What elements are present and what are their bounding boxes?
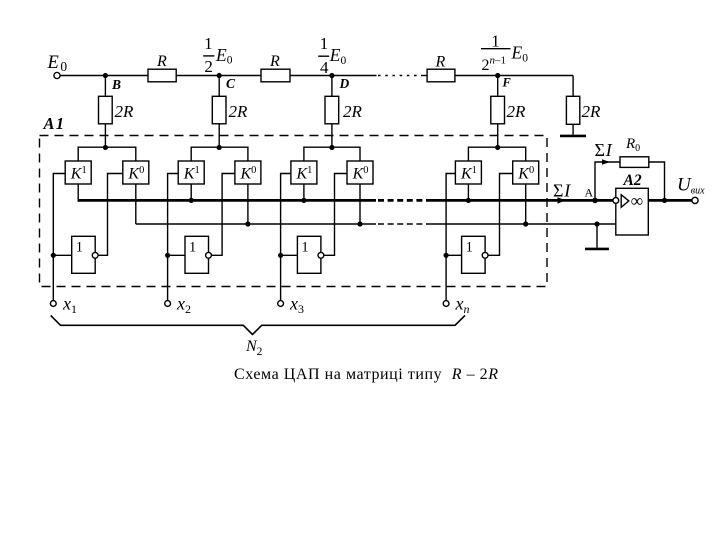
- inverter bit n: [462, 236, 486, 273]
- switch K1 bit 2: [178, 161, 204, 184]
- resistor 2R at node D: [331, 76, 333, 97]
- svg-text:R: R: [156, 53, 167, 70]
- inverter output circle bit n: [482, 252, 488, 258]
- wire inverter to K0 control bit n: [488, 174, 513, 256]
- wire x2 to inverter input: [168, 254, 185, 256]
- lower reference bus: [136, 223, 376, 225]
- ground at op-amp: [596, 224, 598, 248]
- svg-text:A: A: [585, 186, 594, 200]
- node B: [103, 73, 108, 78]
- switch K0 bit 2: [235, 161, 261, 184]
- resistor R0: [620, 157, 649, 168]
- svg-text:2R: 2R: [115, 102, 135, 121]
- svg-text:2R: 2R: [343, 102, 363, 121]
- arrow on feedback wire: [602, 159, 610, 165]
- wire K1 to summing bus bit 1: [77, 184, 79, 202]
- junction on x2 line: [165, 253, 170, 258]
- junction on summing bus bit 2: [189, 198, 194, 203]
- wire K1 to summing bus bit 2: [190, 184, 192, 202]
- svg-text:1: 1: [320, 34, 329, 53]
- label 1/4 E0: [320, 34, 347, 77]
- switch K0 bit 1: [123, 161, 149, 184]
- wire K1 control bit n: [446, 174, 455, 256]
- wire to terminal x3: [280, 255, 282, 300]
- wire K1 control bit 1: [53, 174, 65, 256]
- terminal x3: [278, 301, 284, 307]
- svg-text:1: 1: [204, 34, 213, 53]
- label 1/2^(n-1) E0: [482, 31, 529, 74]
- wire R1 to node C: [176, 75, 219, 77]
- inverter output circle bit 3: [318, 252, 324, 258]
- node C: [217, 73, 222, 78]
- wire x1 to inverter input: [53, 254, 71, 256]
- junction node bit n: [495, 145, 500, 150]
- junction on lower bus bit n: [523, 221, 528, 226]
- svg-text:D: D: [339, 76, 350, 91]
- terminal x2: [165, 301, 171, 307]
- svg-text:ΣI: ΣI: [595, 140, 613, 160]
- svg-text:A1: A1: [43, 114, 66, 133]
- junction on x1 line: [51, 253, 56, 258]
- node A: [592, 198, 598, 204]
- switch K0 bit n: [513, 161, 539, 184]
- svg-text:2: 2: [204, 57, 213, 76]
- svg-text:1: 1: [189, 240, 196, 256]
- wire xn to inverter input: [446, 254, 462, 256]
- switch K1 bit 1: [65, 161, 91, 184]
- node D: [329, 73, 334, 78]
- junction on xn line: [444, 253, 449, 258]
- ground under terminating 2R: [560, 135, 586, 138]
- feedback wire from node A: [595, 162, 620, 200]
- wire to R3: [421, 75, 427, 77]
- svg-text:C: C: [226, 76, 236, 91]
- wire R2 to node D: [290, 75, 332, 77]
- wire arm to switches bit 1: [78, 147, 136, 161]
- junction on summing bus bit n: [466, 198, 471, 203]
- wire R0 to output node: [649, 162, 665, 200]
- wire K0 to lower bus bit 2: [247, 184, 249, 224]
- output wire: [648, 199, 692, 202]
- svg-text:A2: A2: [623, 172, 642, 189]
- junction on x3 line: [278, 253, 283, 258]
- svg-text:B: B: [111, 77, 121, 92]
- wire D rightwards: [332, 75, 377, 77]
- inverter output circle bit 1: [92, 252, 98, 258]
- svg-text:2R: 2R: [229, 102, 249, 121]
- svg-text:1: 1: [76, 240, 83, 256]
- terminal x1: [50, 301, 56, 307]
- wire R3 to node F: [455, 75, 498, 77]
- wire K1 control bit 2: [168, 174, 179, 256]
- switch K1 bit n: [455, 161, 481, 184]
- junction on output: [662, 198, 667, 203]
- dashed block A1: [40, 136, 548, 287]
- op-amp inverting input circle: [613, 198, 619, 204]
- terminal xn: [443, 301, 449, 307]
- junction on lower bus bit 2: [245, 221, 250, 226]
- resistor 2R at node B: [104, 76, 106, 97]
- wire K0 to lower bus bit n: [525, 184, 527, 224]
- switch K0 bit 3: [347, 161, 373, 184]
- wire to terminal xn: [445, 255, 447, 300]
- wire to terminal x2: [167, 255, 169, 300]
- inverter bit 3: [297, 236, 321, 273]
- wire F to right corner: [498, 75, 573, 77]
- svg-text:1: 1: [491, 31, 500, 50]
- op-amp triangle: [621, 195, 629, 208]
- brace N2: [51, 315, 465, 334]
- terminating resistor 2R: [572, 76, 574, 97]
- wire arm to switches bit 2: [191, 147, 248, 161]
- wire C to R2: [219, 75, 261, 77]
- inverter bit 2: [185, 236, 209, 273]
- wire K1 to summing bus bit 3: [303, 184, 305, 202]
- wire arm to switches bit 3: [304, 147, 360, 161]
- svg-text:2R: 2R: [582, 102, 602, 121]
- label 1/2 E0: [204, 34, 233, 76]
- wire K0 to lower bus bit 3: [359, 184, 361, 224]
- junction node bit 1: [103, 145, 108, 150]
- wire to terminal x1: [52, 255, 54, 300]
- svg-text:F: F: [502, 76, 512, 90]
- svg-text:1: 1: [301, 240, 308, 256]
- terminal E0: [54, 72, 60, 78]
- wire K0 to lower bus bit 1: [135, 184, 137, 224]
- wire dotted gap top rail: [378, 75, 421, 77]
- arrow on summing bus: [558, 197, 566, 203]
- inverter bit 1: [72, 236, 96, 273]
- wire arm to switches bit n: [468, 147, 525, 161]
- junction node bit 2: [217, 145, 222, 150]
- resistor R3: [427, 69, 455, 82]
- wire inverter to K0 control bit 3: [324, 174, 347, 256]
- wire inverter to K0 control bit 1: [98, 174, 123, 256]
- wire inverter to K0 control bit 2: [211, 174, 235, 256]
- resistor R2: [261, 69, 290, 82]
- wire K1 to summing bus bit n: [467, 184, 469, 202]
- junction node bit 3: [329, 145, 334, 150]
- node F: [495, 73, 500, 78]
- wire B to R1: [105, 75, 148, 77]
- svg-text:2R: 2R: [507, 102, 527, 121]
- inverter output circle bit 2: [206, 252, 212, 258]
- svg-text:R: R: [435, 54, 446, 71]
- resistor R1: [148, 69, 176, 82]
- wire E0 to node B: [60, 75, 105, 77]
- op-amp A2: [616, 188, 649, 235]
- svg-text:1: 1: [466, 240, 473, 256]
- wire x3 to inverter input: [281, 254, 298, 256]
- wire K1 control bit 3: [281, 174, 291, 256]
- junction on lower bus bit 3: [357, 221, 362, 226]
- resistor 2R at node F: [497, 76, 499, 97]
- svg-text:ΣI: ΣI: [553, 181, 571, 201]
- svg-text:∞: ∞: [631, 191, 643, 211]
- summing current bus (thick): [78, 199, 376, 202]
- junction on summing bus bit 3: [301, 198, 306, 203]
- svg-text:4: 4: [320, 58, 329, 77]
- svg-text:R: R: [269, 53, 280, 70]
- terminal U output: [692, 197, 698, 203]
- resistor 2R at node C: [218, 76, 220, 97]
- junction lower bus to ground: [594, 221, 599, 226]
- switch K1 bit 3: [291, 161, 317, 184]
- svg-text:Схема ЦАП на матриці типу R –: Схема ЦАП на матриці типу R – 2R: [234, 366, 499, 383]
